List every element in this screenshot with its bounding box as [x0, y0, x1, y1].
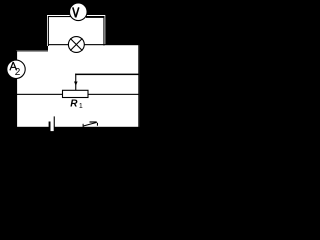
wire rheostat row left: [17, 94, 63, 95]
battery gap: [51, 127, 54, 132]
wire bottom: [16, 127, 139, 128]
wire right vertical: [138, 44, 139, 128]
svg-text:R: R: [70, 98, 78, 109]
wire jog top-left: [16, 50, 48, 51]
rheostat slider arrow: [74, 74, 139, 91]
wire lamp row: [48, 44, 139, 45]
svg-text:1: 1: [79, 103, 83, 110]
wire top (voltmeter branch): [48, 16, 104, 18]
label R1: [70, 98, 83, 110]
battery cell long plate: [54, 116, 55, 127]
node background panels: [16, 15, 139, 128]
wire rheostat row right: [88, 94, 139, 95]
wire right vertical of voltmeter loop: [103, 16, 104, 46]
lamp: [68, 37, 84, 53]
resistor R1 (rheostat body): [63, 90, 89, 97]
voltmeter V: [70, 3, 88, 21]
switch S: [83, 121, 98, 127]
ammeter A2: [7, 60, 25, 78]
battery cell short plate: [49, 122, 51, 128]
wire left vertical: [16, 50, 17, 128]
wire left vertical of voltmeter loop: [48, 16, 49, 46]
svg-text:2: 2: [15, 67, 21, 78]
